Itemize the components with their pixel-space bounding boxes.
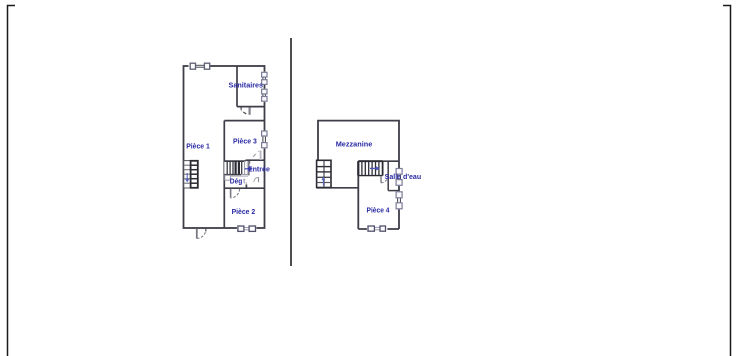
svg-text:Pièce 4: Pièce 4: [367, 206, 391, 215]
salle d'eau left wall: [387, 161, 389, 190]
label Entree: [248, 164, 270, 173]
door entree small arc: [254, 177, 259, 182]
label Piece 2: [232, 207, 256, 216]
window piece3 right wall: [261, 131, 268, 149]
window top (piece1): [189, 63, 211, 70]
staircase piece1 (left wall): [184, 161, 198, 188]
label Salle d'eau: [385, 172, 422, 181]
mezzanine bottom wall: [317, 187, 359, 189]
stair top wall right plan: [358, 160, 399, 162]
svg-text:Pièce 3: Pièce 3: [233, 137, 257, 146]
arrow staircase piece1: [185, 173, 189, 182]
window sanitaires right wall upper: [261, 72, 268, 85]
arrow staircase mezzanine: [321, 177, 325, 186]
piece4 left wall: [357, 161, 359, 229]
label Degt: [230, 176, 248, 185]
svg-text:Pièce 2: Pièce 2: [232, 207, 256, 216]
divider line: [290, 38, 292, 266]
window sanitaires right wall lower: [261, 89, 268, 102]
salle d'eau bottom wall: [388, 190, 399, 192]
wall P1/P3 separator x=224.3: [223, 121, 225, 228]
label Mezzanine: [336, 140, 373, 149]
label Piece 3: [233, 137, 257, 146]
label Piece 4: [367, 206, 391, 215]
staircase mezzanine (left): [317, 160, 331, 187]
staircase central right plan: [358, 161, 382, 175]
window piece4 right wall: [396, 191, 403, 209]
window piece4 bottom wall: [367, 225, 388, 233]
outer walls left plan: [184, 66, 265, 228]
window salle d'eau right wall: [396, 168, 403, 186]
door jamb tick entree: [249, 161, 251, 164]
dgt landing light line: [225, 175, 249, 177]
label Piece 1: [186, 142, 210, 151]
mezzanine walls: [318, 121, 399, 229]
door leaf piece3 along right wall: [260, 151, 262, 161]
door salle d'eau (leaf + arc): [381, 176, 388, 183]
arrow staircase central right plan: [370, 166, 380, 170]
dgt landing small box: [225, 175, 231, 180]
svg-text:Salle d'eau: Salle d'eau: [385, 172, 422, 181]
door bottom-left exterior (leaf + arc): [197, 229, 206, 239]
svg-text:Entrée: Entrée: [248, 164, 270, 173]
arrow staircase dgt: [245, 167, 253, 171]
staircase dgt (central): [224, 161, 248, 175]
sanitaires left wall: [236, 66, 238, 107]
label Sanitaires: [229, 80, 264, 89]
door sanitaires (leaf + arc): [241, 107, 250, 114]
dgt stair right edge: [248, 161, 250, 175]
piece3 top wall: [224, 120, 264, 122]
door piece2 top (leaf + arc): [231, 184, 247, 198]
piece2 top wall: [224, 187, 264, 189]
frame right edge: [723, 6, 731, 356]
svg-text:Pièce 1: Pièce 1: [186, 142, 210, 151]
svg-text:Dég: Dég: [230, 176, 243, 185]
door piece3 arc dashes: [253, 151, 259, 157]
entree top wall: [246, 159, 265, 161]
svg-text:Sanitaires: Sanitaires: [229, 80, 264, 89]
svg-text:t.: t.: [243, 176, 248, 185]
sanitaires bottom wall: [237, 106, 265, 108]
window piece2 bottom wall: [237, 225, 257, 231]
frame left edge: [8, 6, 16, 356]
piece4 bottom wall: [358, 228, 399, 230]
svg-text:Mezzanine: Mezzanine: [336, 140, 373, 149]
